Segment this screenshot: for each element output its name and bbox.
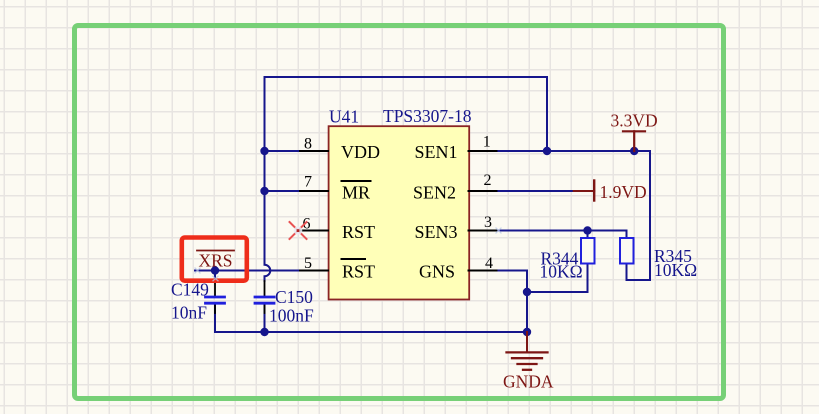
- junction ground rail C150: [260, 328, 268, 336]
- svg-text:5: 5: [304, 255, 312, 272]
- svg-text:SEN1: SEN1: [415, 142, 458, 162]
- wire left vertical with hop over pin5 wire: [265, 77, 271, 281]
- junction R344 bottom: [523, 288, 531, 296]
- net label XRS with overbar: [197, 251, 234, 271]
- svg-text:3.3VD: 3.3VD: [611, 111, 658, 131]
- svg-text:RST: RST: [342, 262, 375, 282]
- svg-text:GNS: GNS: [419, 262, 455, 282]
- svg-text:U41: U41: [329, 107, 359, 127]
- no-ERC marker X on pin 6: [290, 222, 307, 239]
- wire C150 bottom to rail: [264, 304, 266, 332]
- svg-text:TPS3307-18: TPS3307-18: [383, 106, 472, 126]
- resistor R344: [581, 238, 595, 264]
- wire pin 7 to vertical: [265, 190, 299, 192]
- selection vertex mark at pin 3 wire end: [496, 228, 501, 233]
- svg-text:1: 1: [483, 133, 491, 150]
- resistor R345 top lead: [626, 231, 628, 240]
- junction at pin 8: [260, 147, 268, 155]
- pin 4 stub: [469, 270, 499, 272]
- capacitor C149: [206, 271, 225, 314]
- svg-text:10KΩ: 10KΩ: [540, 262, 583, 282]
- svg-text:SEN2: SEN2: [413, 183, 456, 203]
- junction ground rail pin4: [523, 328, 531, 336]
- svg-text:8: 8: [304, 135, 312, 152]
- svg-text:1.9VD: 1.9VD: [600, 182, 647, 202]
- ground GNDA symbol: [507, 332, 548, 370]
- svg-text:XRS: XRS: [199, 251, 233, 271]
- capacitor C150: [255, 281, 274, 313]
- pin 1 stub: [469, 150, 499, 152]
- pin 7 stub: [298, 190, 328, 192]
- wire pin 8 to vertical: [265, 150, 299, 152]
- svg-text:100nF: 100nF: [269, 306, 314, 326]
- junction SEN1 drop: [543, 147, 551, 155]
- svg-text:3: 3: [484, 214, 492, 231]
- wire pin 1 to 3.3VD and corner down: [499, 151, 651, 280]
- svg-text:C150: C150: [275, 287, 313, 307]
- wire XRS node to pin 5: [195, 270, 298, 272]
- selection vertex mark at XRS wire end: [195, 268, 200, 273]
- svg-text:2: 2: [484, 172, 492, 189]
- wire pin 3 to resistors: [499, 230, 627, 232]
- svg-text:GNDA: GNDA: [503, 372, 554, 392]
- pin 8 stub: [298, 150, 328, 152]
- power port 1.9VD: [574, 181, 647, 202]
- resistor R345: [620, 238, 634, 264]
- pin 5 stub: [298, 270, 328, 272]
- junction R344 tap: [583, 226, 591, 234]
- wire pin 2 toward 1.9VD: [499, 190, 575, 192]
- pin 6 hotspot halo: [294, 226, 303, 235]
- pin 3 stub: [469, 230, 499, 232]
- svg-text:RST: RST: [342, 222, 375, 242]
- svg-text:VDD: VDD: [341, 142, 380, 162]
- wire ground rail: [215, 304, 527, 332]
- pin 2 stub: [469, 190, 499, 192]
- selection box around XRS: [182, 238, 247, 281]
- svg-text:SEN3: SEN3: [415, 222, 458, 242]
- selection vertex mark below XRS junction: [213, 276, 218, 281]
- wire top bus from left vertical to SEN1 drop: [265, 77, 548, 151]
- pin 5 name RST with overbar: [342, 259, 376, 282]
- junction 3.3VD tap: [630, 147, 638, 155]
- wire R344 bottom to pin4 vertical: [527, 264, 588, 293]
- power port 3.3VD: [611, 111, 658, 152]
- pin 7 name MR with overbar: [342, 181, 371, 203]
- svg-text:4: 4: [485, 255, 493, 272]
- junction at pin 7: [260, 187, 268, 195]
- pin 6 stub: [298, 230, 328, 232]
- junction XRS node: [211, 266, 219, 274]
- resistor R344 top lead: [587, 231, 589, 240]
- wire pin 4 down to ground rail: [499, 271, 528, 333]
- IC U41 TPS3307-18 voltage supervisor body: [329, 126, 470, 299]
- svg-text:MR: MR: [342, 183, 370, 203]
- svg-text:10nF: 10nF: [171, 303, 207, 323]
- svg-text:10KΩ: 10KΩ: [654, 260, 697, 280]
- pin 6 hotspot dot: [297, 229, 300, 232]
- svg-text:7: 7: [304, 174, 312, 191]
